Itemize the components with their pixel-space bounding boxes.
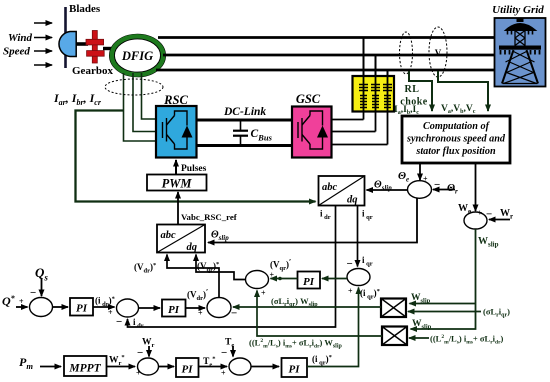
sum junction wr (138, 358, 159, 375)
Qref wire (16, 306, 28, 308)
w_slip distribution wire (411, 229, 476, 329)
grid voltage measurement wire (438, 71, 488, 111)
computation block (402, 116, 510, 163)
RSC IGBT (163, 111, 188, 149)
multiplier M2 (382, 327, 407, 346)
svg-text:Computation of: Computation of (423, 121, 491, 132)
rotor wire b (133, 73, 156, 132)
svg-text:dq: dq (347, 195, 358, 206)
sum junction vdr (207, 298, 231, 318)
DC link bus minus (197, 144, 293, 147)
choke tap phase a (363, 38, 365, 77)
svg-text:DC-Link: DC-Link (223, 106, 266, 118)
svg-text:dq: dq (187, 242, 198, 253)
wire PI to junction idr (93, 306, 115, 308)
svg-text:+: + (19, 297, 24, 306)
GSC IGBT (298, 111, 323, 149)
transmission tower (499, 18, 541, 84)
vqr ref wire (196, 255, 246, 280)
wire stator phase a (158, 36, 495, 39)
svg-text:Speed: Speed (3, 46, 30, 58)
PI speed (176, 358, 199, 377)
theta_slip wire to abc-dq (367, 189, 408, 191)
svg-text:Vabc_RSC_ref: Vabc_RSC_ref (181, 212, 238, 222)
choke tap phase c (387, 70, 389, 76)
wire GSC phase b (332, 131, 376, 133)
Pm wire (40, 366, 61, 368)
sum junction w (464, 212, 487, 229)
PI torque (282, 358, 308, 377)
svg-text:GSC: GSC (296, 92, 321, 106)
theta_r wire (433, 189, 455, 191)
svg-text:Gearbox: Gearbox (72, 65, 113, 77)
CT ellipse measurement (400, 32, 413, 74)
wire GSC phase a (332, 119, 364, 121)
wire PI to junction vdr (186, 307, 206, 309)
PI reactive power (70, 298, 93, 316)
i_dr feedback wire (128, 206, 336, 328)
svg-text:synchronous speed and: synchronous speed and (406, 134, 506, 145)
svg-text:PI: PI (182, 364, 194, 376)
converter GSC (292, 107, 332, 158)
svg-text:Blades: Blades (69, 3, 101, 15)
svg-text:−: − (434, 179, 440, 191)
wire Q junction to PI (53, 306, 69, 308)
svg-text:RSC: RSC (163, 93, 188, 107)
iqr ref riser wire (307, 288, 359, 367)
w_r wire (489, 219, 510, 221)
inductor Lc (383, 85, 392, 108)
vdr ref wire (167, 255, 219, 298)
inductor La (359, 85, 368, 108)
M2 input wire (409, 337, 429, 339)
M2 output wire (257, 291, 382, 337)
PWM block (147, 175, 207, 191)
choke through-wires (364, 76, 388, 145)
svg-text:−: − (347, 258, 353, 270)
svg-text:+: + (478, 209, 483, 218)
svg-text:PWM: PWM (162, 177, 193, 191)
svg-text:+: + (423, 175, 428, 184)
sum junction theta (408, 181, 432, 199)
svg-text:DFIG: DFIG (121, 49, 153, 63)
sum junction Q (30, 298, 53, 317)
wire dq2abc to PWM (177, 192, 179, 225)
svg-text:−: − (221, 347, 227, 359)
M1 output wire (233, 306, 381, 308)
M1 input sigma wire (408, 311, 481, 313)
RL choke box (353, 76, 395, 112)
rotor wire a (124, 73, 157, 141)
svg-text:Va,Vb,Vc: Va,Vb,Vc (441, 104, 476, 115)
svg-text:RL: RL (405, 84, 420, 95)
wire MPPT to junction wr (107, 366, 136, 368)
theta_slip wire to dq-abc (208, 198, 417, 243)
converter RSC (156, 106, 197, 158)
svg-text:+: + (198, 309, 203, 318)
svg-text:−: − (231, 308, 237, 320)
svg-text:Utility Grid: Utility Grid (492, 4, 544, 16)
svg-text:stator flux position: stator flux position (415, 146, 496, 157)
svg-text:−: − (486, 209, 492, 221)
svg-text:PI: PI (76, 303, 88, 315)
svg-text:−: − (30, 287, 36, 299)
sum junction idr (117, 299, 139, 317)
svg-text:PI: PI (168, 304, 180, 316)
inductor Lb (371, 85, 380, 108)
multiplier M1 (381, 299, 406, 318)
gearbox GB (86, 31, 104, 64)
rotor CT dotted ellipse (105, 79, 163, 95)
svg-text:+: + (221, 369, 226, 378)
sum junction iqr (347, 269, 370, 286)
generator DFIG (110, 34, 166, 77)
svg-text:PI: PI (303, 276, 315, 288)
wire junction idr to PI (139, 307, 161, 309)
wire GSC phase c (332, 144, 388, 146)
i_qr wire (357, 206, 359, 267)
svg-text:abc: abc (322, 182, 338, 193)
svg-text:Pulses: Pulses (181, 164, 207, 174)
PI current d (162, 300, 186, 317)
wire junction te to PI (251, 366, 279, 368)
wr wire (148, 346, 150, 357)
wire stator phase b (163, 54, 495, 57)
wire PI to junction vqr (271, 278, 298, 280)
svg-text:Wind: Wind (8, 32, 33, 44)
wire junction iqr to PI (322, 278, 347, 280)
rotor current tap wire (76, 111, 316, 202)
hub (59, 32, 76, 57)
MPPT block (64, 356, 107, 376)
sum junction vqr (246, 271, 269, 289)
svg-text:+: + (270, 271, 275, 280)
transform dq-abc voltage refs (157, 225, 205, 254)
transform abc-dq rotor currents (319, 176, 365, 206)
w_slip branch to M1 (410, 303, 476, 305)
wire PI to junction te (199, 366, 228, 368)
rotor wire c (142, 73, 157, 119)
DC link bus plus (197, 119, 293, 122)
svg-text:+: + (108, 308, 113, 317)
sum junction te (229, 358, 251, 375)
svg-text:abc: abc (161, 230, 177, 241)
svg-text:−: − (116, 316, 122, 328)
choke tap phase b (375, 55, 377, 76)
wire junction wr to PI (159, 366, 175, 368)
V measurement ellipse (429, 27, 447, 77)
svg-text:V: V (435, 48, 442, 58)
capacitor CBus (233, 120, 248, 146)
pulses arrow (175, 160, 177, 174)
svg-text:+: + (261, 289, 266, 298)
wind arrows (34, 23, 52, 65)
theta_e wire (419, 163, 421, 180)
junction dot (278, 277, 282, 281)
svg-text:+: + (348, 287, 353, 296)
te wire (232, 346, 234, 357)
w_e wire (475, 163, 477, 211)
PI current q (298, 272, 321, 289)
svg-text:−: − (137, 347, 143, 359)
wire stator phase c (156, 69, 495, 72)
blade (64, 7, 67, 68)
utility grid box (495, 18, 546, 87)
svg-text:PI: PI (289, 364, 301, 376)
shaft high-speed (103, 47, 113, 50)
svg-text:MPPT: MPPT (68, 363, 101, 375)
shaft low-speed (76, 42, 88, 46)
grid current measurement wire (409, 71, 432, 111)
Qs wire (41, 279, 43, 296)
